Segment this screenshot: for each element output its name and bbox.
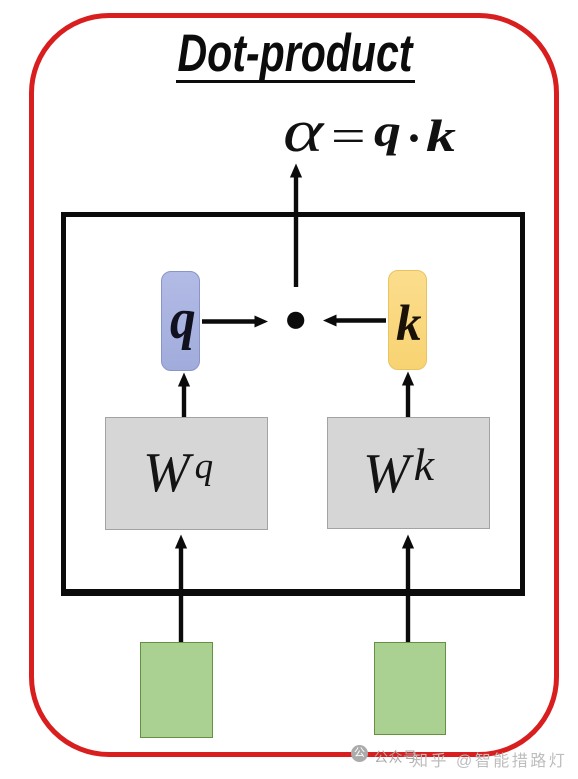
watermark logo circle xyxy=(351,745,368,762)
k box (yellow) xyxy=(388,270,427,370)
Wq box (gray) xyxy=(105,417,268,530)
Wk label xyxy=(363,442,434,502)
inner black box xyxy=(61,212,525,596)
dot (dot-product node) xyxy=(287,312,304,329)
arrow left green input to Wq box xyxy=(175,535,187,644)
title Dot-product xyxy=(66,23,523,84)
Wk box (gray) xyxy=(327,417,490,529)
arrow q to dot xyxy=(202,316,268,328)
bold q xyxy=(374,104,401,157)
center dot xyxy=(406,111,422,166)
Wq label xyxy=(143,445,213,501)
bold k xyxy=(426,109,456,162)
right green input box xyxy=(374,642,446,735)
arrow Wq box to q box xyxy=(178,373,190,432)
arrow Wk box to k box xyxy=(402,372,414,432)
left green input box xyxy=(140,642,213,738)
q label xyxy=(170,297,196,343)
arrow right green input to Wk box xyxy=(402,535,414,644)
watermark text line 2 xyxy=(412,747,567,771)
k label xyxy=(396,304,422,345)
arrow k to dot xyxy=(323,315,386,327)
arrow from dot up to formula xyxy=(290,164,302,288)
equals sign xyxy=(331,109,366,164)
title underline xyxy=(176,80,415,83)
q box (blue) xyxy=(161,271,200,371)
alpha xyxy=(283,97,323,166)
watermark text line 1 xyxy=(374,747,418,767)
